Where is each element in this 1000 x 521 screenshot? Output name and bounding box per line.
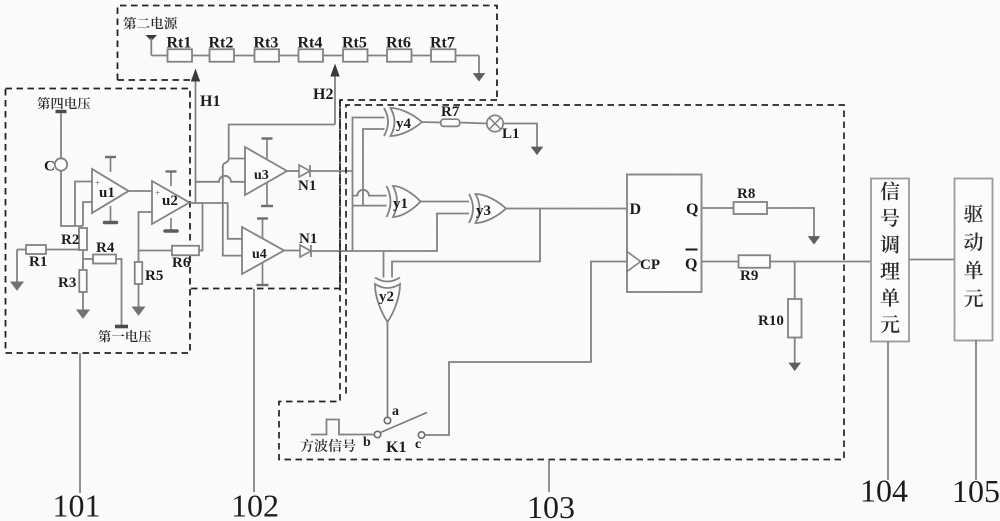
label 驱动单元 bbox=[964, 205, 983, 308]
label c bbox=[415, 437, 421, 452]
label R4 bbox=[96, 240, 115, 256]
wire Rt chain bbox=[151, 55, 479, 57]
switch K1 lever bbox=[380, 413, 427, 433]
wire R10 down bbox=[794, 338, 796, 364]
label 102 bbox=[231, 488, 279, 521]
wire R8 right bbox=[767, 208, 814, 237]
arrow H2 bbox=[331, 65, 339, 76]
label y2 bbox=[379, 289, 394, 305]
op-amp u1 bbox=[92, 169, 129, 213]
ground R1 bbox=[11, 282, 23, 290]
wire y2 out down bbox=[387, 322, 389, 417]
label D bbox=[630, 201, 642, 218]
label fourth-voltage 第四电压 bbox=[37, 97, 90, 109]
label u3 bbox=[254, 168, 269, 183]
resistor Rt5 bbox=[343, 49, 368, 62]
diode N1 upper bbox=[299, 165, 310, 177]
u3 power bottom bbox=[261, 183, 273, 206]
u1 power bottom bbox=[105, 206, 117, 223]
wire Q out bbox=[702, 207, 734, 209]
label y1 bbox=[393, 196, 408, 212]
label R3 bbox=[58, 275, 76, 291]
square wave symbol bbox=[311, 420, 374, 435]
flip-flop U1 box bbox=[627, 175, 702, 293]
wire R7 to L1 bbox=[460, 123, 487, 124]
wire y4 out bbox=[422, 121, 441, 124]
signal conditioning unit box bbox=[871, 179, 909, 342]
label second-power 第二电源 bbox=[123, 17, 177, 30]
label Rt7 bbox=[430, 35, 455, 52]
label y3 bbox=[476, 203, 491, 219]
wire node B vertical bbox=[363, 129, 385, 206]
ground R5 bbox=[133, 307, 145, 315]
wire R5 top bbox=[138, 250, 140, 262]
leader 105 bbox=[975, 341, 977, 481]
resistor Rt7 bbox=[431, 49, 456, 62]
resistor R3 bbox=[79, 270, 87, 292]
sensor C circle bbox=[55, 158, 67, 170]
lamp L1 bbox=[487, 115, 503, 131]
label R7 bbox=[441, 104, 460, 120]
wire H2 to u3 plus bbox=[229, 158, 245, 160]
label 105 bbox=[952, 473, 1000, 509]
resistor R6 bbox=[172, 246, 199, 256]
xor gate y3 bbox=[469, 194, 506, 223]
dashed box 102 bbox=[191, 101, 340, 289]
label N1 lower bbox=[299, 231, 317, 247]
label y4 bbox=[396, 116, 412, 132]
resistor R1 bbox=[26, 245, 46, 254]
label C bbox=[44, 159, 55, 175]
u2 power bottom bbox=[165, 218, 177, 231]
arrow after R8 bbox=[809, 237, 820, 245]
label CP bbox=[640, 257, 660, 273]
wire y1 out bbox=[421, 201, 470, 203]
wire R6 row bbox=[139, 250, 173, 252]
contact c bbox=[418, 432, 424, 438]
wire Qbar out bbox=[702, 261, 739, 263]
label R6 bbox=[172, 255, 191, 271]
xor gate y1 bbox=[387, 186, 421, 217]
wire u1 minus input bbox=[83, 202, 92, 226]
label R2 bbox=[61, 232, 79, 248]
wire L1 down bbox=[503, 124, 537, 148]
label 信号调理单元 bbox=[880, 182, 899, 334]
label 103 bbox=[527, 489, 575, 521]
resistor Rt2 bbox=[210, 49, 235, 62]
wire to u3 inverting (hop) bbox=[196, 176, 246, 182]
label u4 bbox=[252, 247, 267, 262]
contact a bbox=[384, 417, 390, 423]
wire H2 jog down to u4 bbox=[223, 159, 242, 256]
label R5 bbox=[145, 268, 163, 284]
leader 103 bbox=[548, 460, 550, 492]
wire y2 left input bbox=[383, 251, 385, 278]
leader 102 bbox=[253, 289, 255, 492]
arrow after L1 bbox=[532, 147, 543, 155]
label Rt6 bbox=[386, 35, 411, 52]
wire y3 branch down bbox=[392, 209, 540, 278]
wire R5 down bbox=[138, 284, 140, 307]
node H2 stem bbox=[334, 73, 336, 125]
xor gate y2 (down) bbox=[375, 278, 400, 323]
label Q bbox=[686, 201, 698, 218]
resistor R9 bbox=[739, 255, 771, 268]
u3 power top bbox=[262, 139, 273, 160]
wire c to CP bbox=[425, 262, 627, 436]
label H1 bbox=[200, 93, 220, 110]
leader 101 bbox=[79, 353, 81, 493]
label R9 bbox=[740, 268, 758, 284]
wire u2 minus input bbox=[139, 212, 153, 250]
u4 power bottom bbox=[257, 262, 269, 285]
resistor R7 bbox=[441, 119, 460, 126]
wire u2 output node bbox=[190, 203, 243, 239]
label u1 bbox=[99, 185, 115, 201]
wire H2 horizontal bbox=[229, 125, 335, 159]
label Rt1 bbox=[167, 35, 192, 52]
leader 104 bbox=[887, 342, 889, 481]
label L1 bbox=[502, 126, 520, 142]
resistor R8 bbox=[734, 202, 768, 214]
wire R2 node row bbox=[17, 250, 83, 271]
resistor R4 bbox=[93, 255, 116, 264]
scan noise overlay bbox=[0, 0, 1, 1]
wire R1 left ground bbox=[16, 250, 18, 283]
ground R3 bbox=[77, 310, 89, 318]
label a bbox=[392, 404, 399, 419]
label R8 bbox=[737, 186, 755, 202]
label 101 bbox=[53, 488, 101, 521]
dashed box 103 outline bbox=[279, 100, 844, 460]
wire y3 out to D bbox=[506, 208, 627, 210]
wire R6 feedback to u2 out bbox=[199, 203, 203, 251]
label 104 bbox=[860, 473, 908, 509]
wire N1 upper out bbox=[310, 170, 352, 172]
wire u1 out to u2 bbox=[129, 190, 153, 192]
node H1 stem bbox=[195, 77, 197, 203]
resistor Rt4 bbox=[299, 49, 324, 62]
label Rt2 bbox=[209, 35, 234, 52]
resistor R5 bbox=[135, 262, 143, 284]
wire C down to node bbox=[61, 171, 83, 226]
arrow after R10 bbox=[789, 363, 800, 371]
u1 plus sign bbox=[95, 178, 100, 188]
resistor Rt1 bbox=[168, 49, 193, 62]
diode N1 lower bbox=[300, 245, 311, 257]
power supply box (second power) bbox=[118, 6, 498, 101]
arrow down after Rt7 bbox=[474, 74, 485, 82]
wire Qbar right bbox=[770, 261, 871, 263]
label Rt3 bbox=[254, 35, 279, 52]
label R1 bbox=[29, 254, 47, 270]
clock triangle bbox=[627, 252, 641, 272]
wire node A vertical bbox=[353, 118, 385, 252]
resistor R10 bbox=[788, 299, 802, 338]
power terminal bbox=[146, 35, 158, 56]
terminal fourth voltage bbox=[56, 112, 67, 159]
label Rt4 bbox=[298, 35, 323, 52]
label b bbox=[363, 435, 371, 450]
wire R10 branch bbox=[794, 262, 796, 300]
contact b bbox=[374, 431, 380, 437]
wire Rt7 to arrow bbox=[478, 56, 480, 75]
u2 power top bbox=[166, 172, 177, 187]
u1 power top bbox=[105, 157, 116, 172]
op-amp u2 bbox=[152, 181, 190, 224]
dashed box 101 bbox=[6, 89, 191, 354]
op-amp u4 bbox=[242, 227, 284, 274]
wire u3 out bbox=[287, 170, 299, 172]
label R10 bbox=[758, 313, 784, 329]
label u2 bbox=[162, 193, 178, 209]
label Rt5 bbox=[342, 35, 367, 52]
wire A to y1 upper (hop) bbox=[353, 190, 387, 196]
wire N1 lower out to y3 branch bbox=[311, 214, 469, 252]
u2 plus sign bbox=[155, 188, 160, 198]
terminal first voltage bbox=[115, 325, 128, 329]
op-amp u3 bbox=[245, 147, 287, 195]
wire R3 down bbox=[82, 292, 84, 310]
label Qbar bbox=[685, 250, 698, 274]
resistor R2 bbox=[79, 228, 87, 250]
wire y1 lower input bbox=[353, 205, 387, 207]
u4 power top bbox=[257, 219, 268, 240]
wire to u1 plus input bbox=[75, 182, 92, 227]
xor gate y4 bbox=[384, 108, 422, 136]
resistor Rt3 bbox=[255, 49, 280, 62]
arrow H1 bbox=[192, 70, 200, 81]
label N1 upper bbox=[298, 178, 316, 194]
label first-voltage 第一电压 bbox=[98, 330, 151, 342]
label square-wave 方波信号 bbox=[301, 439, 356, 452]
drive unit box bbox=[955, 179, 993, 341]
label K1 bbox=[386, 439, 406, 456]
label H2 bbox=[313, 86, 333, 103]
resistor Rt6 bbox=[387, 49, 412, 62]
wire unit link bbox=[909, 259, 955, 261]
wire u4 out bbox=[284, 250, 300, 252]
wire R4 row bbox=[83, 259, 122, 325]
